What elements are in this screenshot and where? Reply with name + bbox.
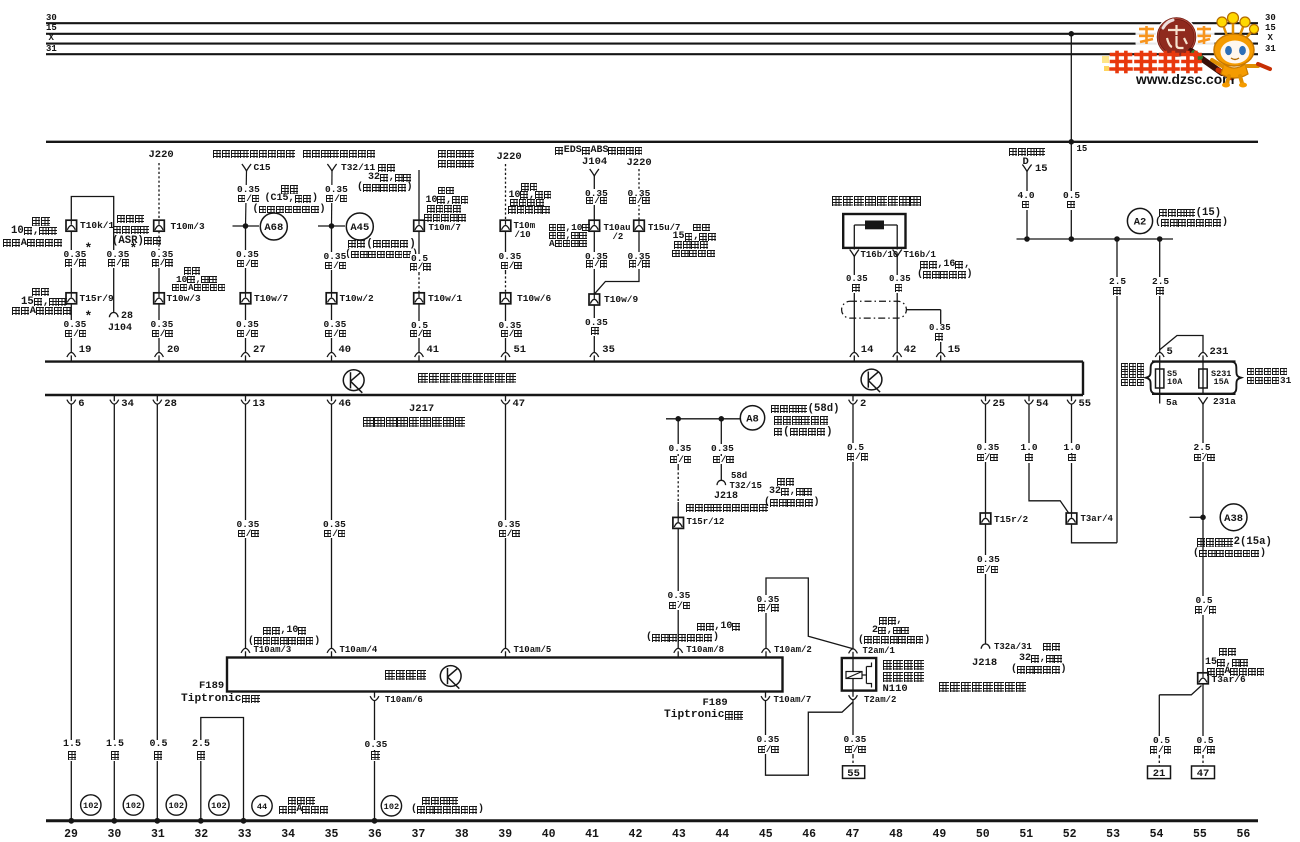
svg-text:www.dzsc.com: www.dzsc.com [1135, 72, 1234, 87]
